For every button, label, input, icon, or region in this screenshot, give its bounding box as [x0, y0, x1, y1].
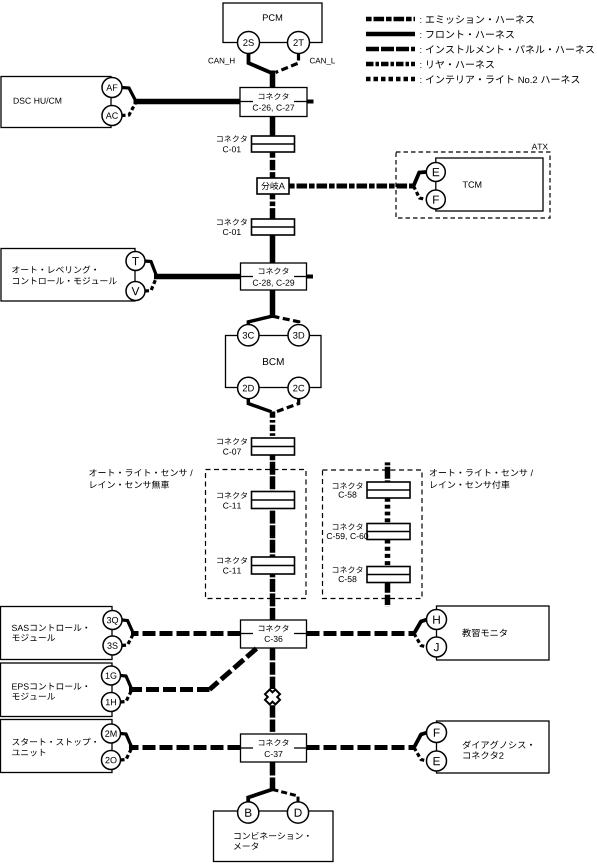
pin 1H — [102, 693, 121, 712]
wire to pin D (dashed) — [273, 790, 299, 803]
pin J — [427, 637, 447, 657]
ATX dashed group box — [396, 152, 550, 218]
PCM box — [223, 3, 322, 43]
connector box C-26, C-27 — [240, 88, 307, 117]
pin T — [126, 252, 145, 271]
legend front harness sample — [366, 32, 415, 37]
wire from BCM pin 2D — [248, 399, 271, 412]
trunk wire PCM to connector C-26/C-27 — [270, 71, 276, 88]
connector C-07 — [252, 438, 295, 455]
DSC HU/CM box — [1, 77, 111, 128]
TCM box — [436, 158, 543, 211]
pin 2T — [288, 32, 310, 54]
BCM box — [226, 336, 322, 388]
wire to TCM pin F (dashed) — [414, 186, 427, 200]
connector box C-36 — [241, 620, 307, 648]
wire from pin 2O (dashed) — [121, 750, 132, 761]
label CAN_H — [208, 58, 234, 65]
pin 3S — [103, 636, 122, 655]
wire from pin 3Q — [122, 620, 133, 632]
connector C-01 (first) — [252, 136, 295, 152]
wire EPS module bus (dashed) — [129, 687, 210, 692]
trunk wire C-37 to combination meter (dashed) — [270, 762, 276, 790]
wire from pin 2M — [121, 734, 132, 746]
trunk wire C-11 to connector C-36 (dashed) — [270, 574, 276, 620]
pin F of diagnosis connector — [427, 723, 447, 743]
pin B — [238, 802, 259, 823]
branch wire C-58 to C-59/C-60 (dashed) — [385, 498, 391, 524]
wire from pin AF — [122, 88, 136, 101]
connector C-59, C-60 — [367, 524, 410, 540]
pin 1G — [102, 666, 121, 685]
wire from BCM pin 2C (dashed) — [276, 399, 299, 412]
EPS control module box — [1, 663, 113, 717]
pin H — [427, 610, 447, 630]
trunk wire C-01 to branch A (emission, dashed) — [270, 152, 276, 178]
wire leveling module to connector C-28/C-29 — [154, 274, 241, 280]
connector C-11 (second) — [252, 557, 295, 574]
pin 3Q — [103, 611, 122, 630]
wire SAS module to connector C-36 (dashed) — [131, 631, 241, 636]
pin E of TCM — [426, 163, 445, 182]
wire from pin V (dashed) — [145, 279, 156, 292]
trunk wire C-28/C-29 to BCM — [270, 290, 276, 317]
diagnosis connector 2 box — [437, 721, 550, 773]
auto leveling control module box — [1, 249, 135, 302]
wire CAN_H from pin 2S — [249, 54, 271, 73]
pin 2D — [238, 377, 259, 398]
label auto light sensor / rain sensor none — [89, 469, 192, 476]
wire from pin 3S (dashed) — [122, 636, 133, 646]
pin F of TCM — [426, 190, 445, 209]
pin 2M — [102, 724, 121, 743]
wire to pin B — [248, 789, 273, 802]
wire from pin 1H (dashed) — [121, 692, 132, 703]
branch wire below C-58 (dashed) — [385, 583, 391, 608]
wire from pin AC (dashed) — [122, 103, 136, 116]
legend rear harness sample — [366, 62, 415, 67]
wire to BCM pin 3C — [248, 316, 273, 325]
trunk wire C-36 to C-37 through crossing (dashed) — [270, 648, 276, 734]
crossing symbol X (no-connection) — [265, 690, 280, 705]
wire C-36 to training monitor (dashed) — [307, 631, 415, 636]
SAS control module box — [1, 607, 113, 660]
wire to pin J (dashed) — [414, 634, 427, 648]
wire CAN_L from pin 2T (dashed) — [276, 54, 299, 73]
label auto light sensor / rain sensor equipped — [430, 469, 533, 476]
connector C-11 (first) — [252, 492, 295, 509]
label CAN_L — [310, 58, 335, 65]
wire branch A to TCM (emission, dashed) — [289, 184, 414, 189]
group box with auto light sensor (dashed) — [323, 470, 423, 599]
pin 2O — [102, 751, 121, 770]
trunk wire C-07 to C-11 (dashed) — [270, 455, 276, 492]
wire C-37 to diagnosis connector (dashed) — [307, 745, 415, 750]
wire to pin E (dashed) — [414, 748, 427, 762]
trunk wire branch A to connector C-01 second (dashed) — [270, 194, 276, 219]
legend instrument panel harness sample — [366, 47, 415, 52]
pin 3C — [238, 325, 259, 346]
legend emission harness sample — [366, 17, 415, 22]
pin AC — [102, 106, 122, 126]
group box without auto light sensor (dashed) — [206, 470, 307, 599]
branch wire C-59/C-60 to C-58 (dashed) — [385, 540, 391, 567]
pin 3D — [288, 325, 309, 346]
wire from pin 1G — [121, 676, 132, 688]
wire to TCM pin E — [414, 172, 427, 186]
trunk wire C-26/C-27 to connector C-01 — [270, 117, 276, 137]
branch wire above C-58 (dashed) — [385, 462, 391, 482]
connector box C-37 — [241, 734, 307, 762]
pin AF — [102, 78, 122, 98]
legend interior light No.2 harness sample — [366, 77, 415, 82]
wire to pin H — [414, 620, 427, 634]
wire from pin T — [145, 261, 156, 275]
pin V — [126, 282, 145, 301]
wire DSC to connector C-26/C-27 — [134, 99, 241, 105]
connector C-58 (first) — [367, 482, 410, 498]
trunk wire C-11 to C-11 (dashed) — [270, 509, 276, 558]
branch box 分岐A — [257, 178, 289, 194]
connector box C-28, C-29 — [241, 263, 307, 290]
connector C-58 (second) — [367, 567, 410, 583]
combination meter box — [214, 811, 334, 862]
wire EPS diagonal to C-36 (dashed) — [210, 649, 257, 690]
training monitor box — [437, 606, 550, 660]
pin 2C — [288, 377, 309, 398]
trunk wire BCM to connector C-07 (dashed) — [270, 412, 276, 439]
pin D — [287, 802, 308, 823]
start stop unit box — [1, 720, 113, 773]
wire to BCM pin 3D (dashed) — [273, 316, 299, 325]
trunk wire C-01 to connector C-28/C-29 — [270, 235, 276, 263]
wire start stop unit to connector C-37 (dashed) — [129, 745, 241, 750]
connector C-01 (second) — [252, 219, 295, 235]
pin E of diagnosis connector — [427, 751, 447, 771]
pin 2S — [238, 32, 260, 54]
wire to pin F — [414, 733, 427, 748]
